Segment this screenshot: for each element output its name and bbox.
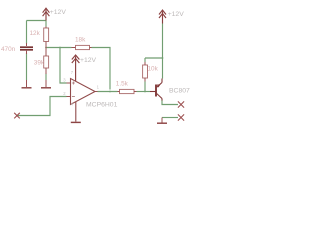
svg-text:3: 3 — [63, 78, 66, 83]
svg-text:BC807: BC807 — [169, 88, 190, 95]
svg-text:18k: 18k — [75, 37, 86, 44]
svg-text:+12V: +12V — [50, 9, 67, 16]
svg-text:+12V: +12V — [168, 11, 185, 18]
svg-text:MCP6H01: MCP6H01 — [86, 102, 118, 109]
svg-text:+12V: +12V — [80, 57, 97, 64]
svg-text:12k: 12k — [30, 30, 41, 37]
svg-text:10k: 10k — [148, 66, 159, 73]
svg-text:470n: 470n — [1, 46, 16, 53]
svg-text:39k: 39k — [34, 60, 45, 67]
svg-text:1.5k: 1.5k — [116, 80, 129, 87]
svg-text:7: 7 — [71, 70, 74, 75]
svg-text:2: 2 — [63, 91, 66, 96]
svg-text:1: 1 — [97, 85, 100, 90]
svg-text:4: 4 — [71, 101, 74, 106]
